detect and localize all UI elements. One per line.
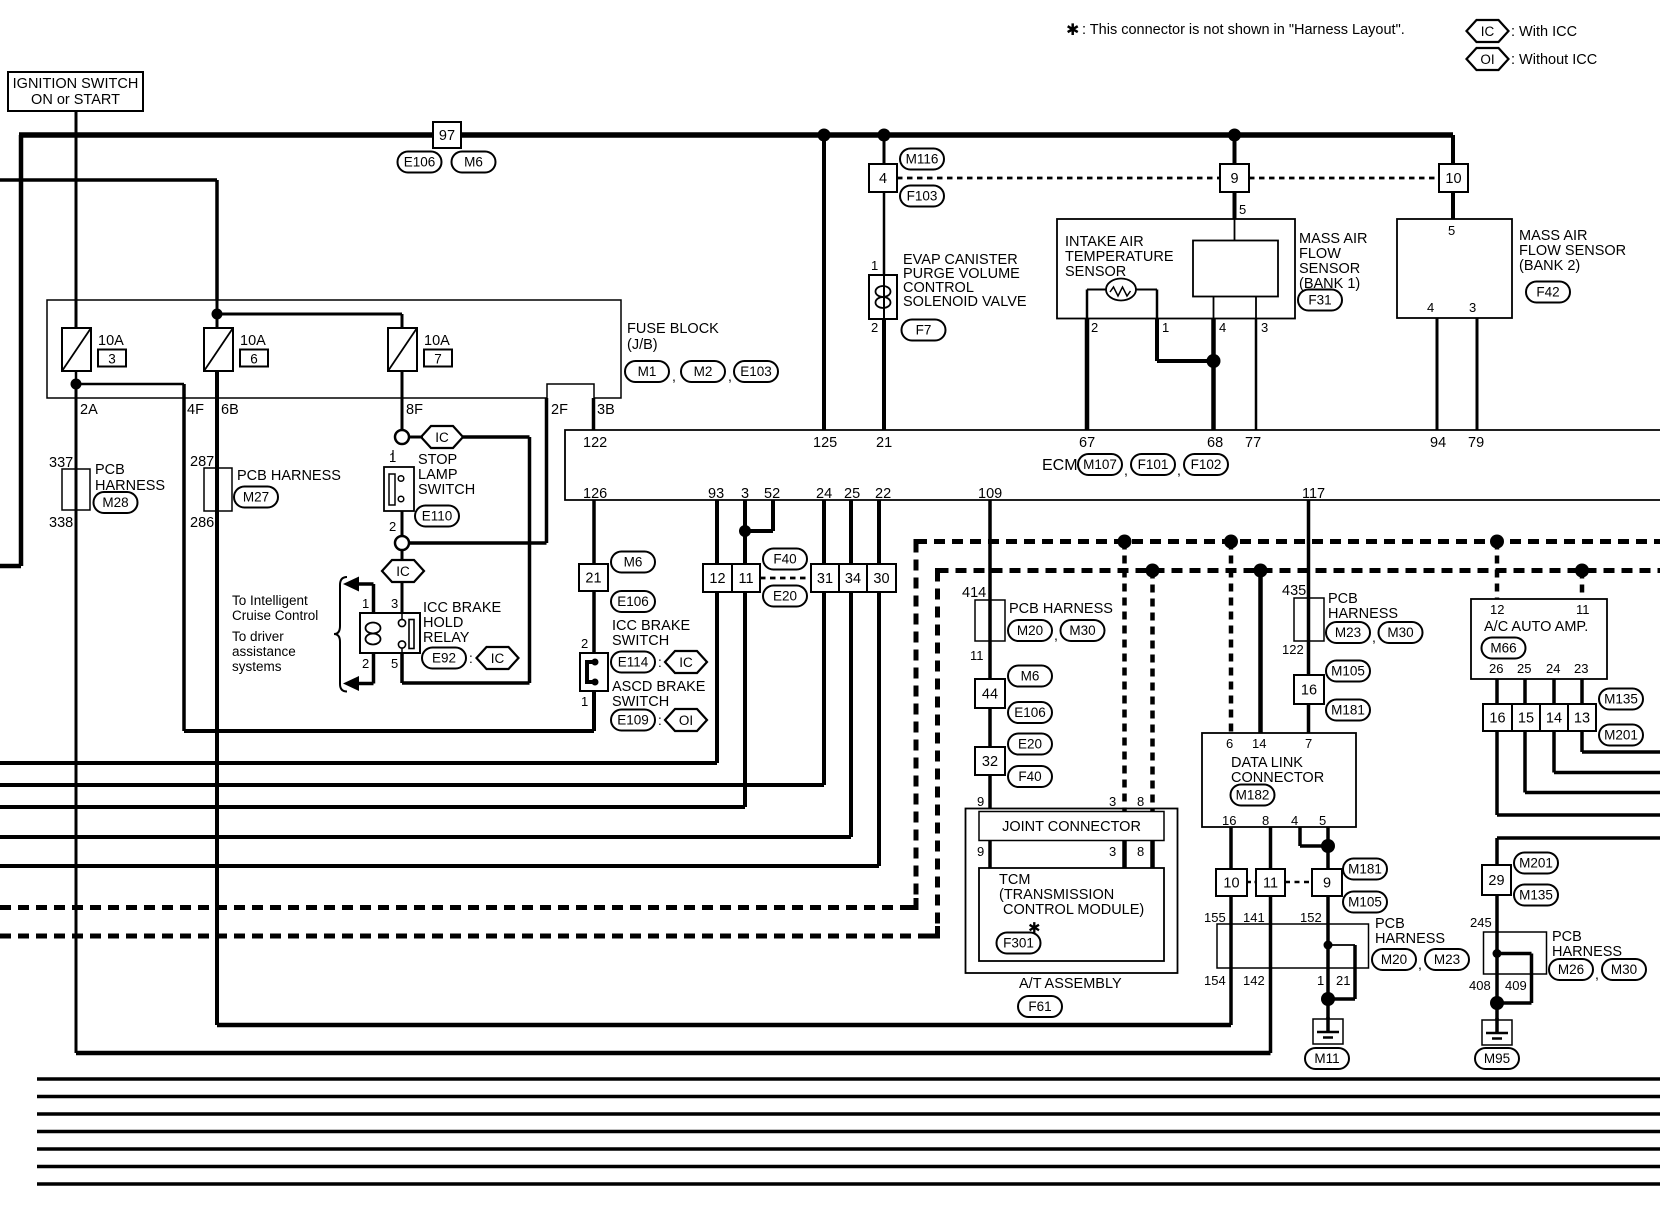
- svg-text:,: ,: [1124, 462, 1128, 478]
- junction bus to ECM 125: [818, 129, 831, 142]
- connector box 4: [869, 164, 897, 192]
- wire ECM 117 down to DLC pin 7: [1307, 500, 1311, 733]
- connector M135 oval: [1599, 689, 1643, 710]
- svg-text:PCB HARNESS: PCB HARNESS: [1009, 601, 1113, 617]
- svg-text:126: 126: [583, 486, 607, 502]
- connector M105 oval: [1343, 892, 1387, 913]
- A/C auto amp box M66: [1471, 599, 1607, 679]
- junction bus to EVAP branch: [878, 129, 891, 142]
- svg-text:29: 29: [1488, 873, 1504, 889]
- connector M135 oval: [1514, 885, 1558, 906]
- connector E109 oval: [611, 710, 655, 731]
- node circle above stop lamp switch: [395, 430, 409, 444]
- wire main power bus from ignition: [19, 132, 1453, 138]
- ground M95: [1482, 1018, 1512, 1045]
- connector box 34: [839, 564, 867, 592]
- svg-text:STOP: STOP: [418, 452, 457, 468]
- connector box 11 lower: [1256, 869, 1285, 896]
- wire pin5 to MAF inner body: [1234, 219, 1236, 241]
- svg-text:2: 2: [362, 656, 369, 671]
- svg-text:30: 30: [873, 571, 889, 587]
- wire 152 into harness: [1326, 896, 1330, 945]
- svg-text:M66: M66: [1490, 641, 1516, 656]
- svg-text:97: 97: [439, 128, 455, 144]
- svg-text:7: 7: [1305, 736, 1312, 751]
- svg-text:CONTROL MODULE): CONTROL MODULE): [1003, 902, 1144, 918]
- wire bus to connector 9: [1233, 135, 1237, 164]
- wire stop lamp pin2 to node: [401, 511, 404, 536]
- TCM box: [979, 868, 1164, 961]
- wire 16 out to right edge: [1495, 731, 1499, 815]
- svg-text:M2: M2: [694, 364, 713, 379]
- connector F42 oval: [1526, 282, 1570, 303]
- svg-text:Cruise Control: Cruise Control: [232, 608, 318, 623]
- svg-text:3: 3: [108, 352, 116, 367]
- svg-text:10: 10: [1223, 876, 1239, 892]
- connector E20 oval: [1008, 734, 1052, 755]
- svg-text:7: 7: [434, 352, 442, 367]
- svg-text:PCB: PCB: [1375, 916, 1405, 932]
- wire fuse block internal feed to fuses 6 and 7: [216, 300, 219, 328]
- svg-text:✱: ✱: [1066, 22, 1079, 39]
- svg-text:34: 34: [845, 571, 861, 587]
- svg-text:To driver: To driver: [232, 629, 284, 644]
- svg-text:HARNESS: HARNESS: [1375, 931, 1445, 947]
- svg-text:23: 23: [1574, 661, 1588, 676]
- svg-text:,: ,: [1054, 627, 1058, 643]
- svg-text:2A: 2A: [80, 402, 98, 418]
- svg-text:ICC BRAKE: ICC BRAKE: [423, 600, 501, 616]
- wire A/C 24 to box14: [1552, 679, 1556, 704]
- wire ignition switch down to fuse 3: [75, 111, 78, 328]
- svg-text:14: 14: [1546, 711, 1562, 727]
- wire connector10 to MAF bank2: [1451, 192, 1455, 219]
- svg-text:117: 117: [1302, 486, 1325, 502]
- svg-text:M201: M201: [1519, 856, 1553, 871]
- bottom spare wire 5: [37, 1147, 1660, 1150]
- svg-text:M20: M20: [1381, 952, 1407, 967]
- svg-text:M182: M182: [1236, 788, 1270, 803]
- svg-text:21: 21: [1336, 973, 1350, 988]
- hexagon IC at stop lamp bypass: [421, 426, 463, 448]
- fuse 7 10A: [388, 328, 452, 371]
- connector box 13 AC: [1568, 704, 1596, 731]
- wire MAF bank2 pin3 to ECM 79: [1476, 318, 1479, 430]
- connector box 12: [703, 564, 732, 592]
- svg-text:,: ,: [1418, 956, 1422, 972]
- connector box 14 AC: [1540, 704, 1568, 731]
- svg-text:M23: M23: [1434, 952, 1460, 967]
- dashed bus 2: [938, 568, 1660, 573]
- svg-text:125: 125: [813, 435, 837, 451]
- connector M27 oval: [234, 487, 278, 508]
- svg-text:(BANK 2): (BANK 2): [1519, 258, 1580, 274]
- svg-text:5: 5: [1239, 202, 1246, 217]
- wire branch y180 to fuse block: [0, 178, 217, 182]
- junction inside M26 harness: [1493, 949, 1502, 958]
- svg-text:3: 3: [741, 486, 749, 502]
- wire 4F feed along y731 to brake switch pin1: [184, 729, 594, 733]
- connector box 31: [811, 564, 839, 592]
- wire connector9 to MAF bank1: [1233, 192, 1237, 219]
- connector box 30: [867, 564, 896, 592]
- connector box 9: [1220, 164, 1249, 192]
- svg-text:IC: IC: [396, 564, 410, 579]
- svg-text:414: 414: [962, 585, 986, 601]
- svg-text:F31: F31: [1308, 293, 1331, 308]
- svg-text:2F: 2F: [551, 402, 568, 418]
- wire A/C 25 to box15: [1523, 679, 1527, 704]
- svg-text:5: 5: [1319, 813, 1326, 828]
- svg-text:141: 141: [1243, 910, 1265, 925]
- svg-text:408: 408: [1469, 978, 1491, 993]
- connector M105 oval: [1326, 661, 1370, 682]
- svg-text:14: 14: [1252, 736, 1266, 751]
- svg-text:,: ,: [672, 368, 676, 384]
- svg-text:assistance: assistance: [232, 644, 296, 659]
- svg-text:HOLD: HOLD: [423, 615, 463, 631]
- junction bus to MAF bank1 branch: [1228, 129, 1241, 142]
- wire 245-408 through harness: [1495, 932, 1499, 1020]
- fuse block notch 2F/3B: [547, 384, 594, 399]
- junction inside harness: [1324, 941, 1333, 950]
- svg-text:44: 44: [982, 687, 998, 703]
- svg-text:M30: M30: [1069, 623, 1095, 638]
- connector F40 oval: [1008, 766, 1052, 787]
- svg-text:3B: 3B: [597, 402, 615, 418]
- svg-text:8F: 8F: [406, 402, 423, 418]
- joint connector strip: [979, 812, 1164, 841]
- svg-text:16: 16: [1301, 683, 1317, 699]
- svg-text:HARNESS: HARNESS: [1552, 944, 1622, 960]
- bottom spare wire 3: [37, 1112, 1660, 1115]
- svg-text:E114: E114: [618, 655, 649, 670]
- svg-text:F103: F103: [907, 189, 938, 204]
- dashed wire bus1 to DLC pin 6: [1229, 542, 1234, 734]
- dashed link 11 to 31: [760, 577, 811, 580]
- wire joint connector pin 3 to TCM: [1122, 841, 1127, 868]
- svg-text:OI: OI: [679, 713, 693, 728]
- svg-text:SWITCH: SWITCH: [418, 482, 475, 498]
- svg-text:3: 3: [391, 596, 398, 611]
- svg-text:109: 109: [978, 486, 1002, 502]
- svg-text:67: 67: [1079, 435, 1095, 451]
- svg-text:M23: M23: [1335, 625, 1361, 640]
- wire 8F down to stop lamp switch: [401, 371, 404, 430]
- connector E103 oval: [734, 361, 778, 382]
- svg-text:F101: F101: [1138, 457, 1169, 472]
- connector M95 oval: [1475, 1048, 1519, 1069]
- junction 3/52: [739, 525, 751, 537]
- wire 2A feed along y1053 to pin 142: [76, 1051, 1271, 1056]
- svg-text:TCM: TCM: [999, 872, 1030, 888]
- svg-text:M6: M6: [1021, 669, 1040, 684]
- wire bus left drop to left edge: [19, 135, 24, 566]
- svg-text:M26: M26: [1558, 962, 1584, 977]
- svg-text::: :: [658, 713, 662, 728]
- svg-text:F42: F42: [1536, 285, 1559, 300]
- wire box29 to PCB harness 245: [1495, 895, 1499, 932]
- svg-text:E103: E103: [740, 364, 772, 379]
- connector E92 oval: [422, 648, 466, 669]
- svg-text:M107: M107: [1083, 457, 1117, 472]
- svg-text:M30: M30: [1611, 962, 1637, 977]
- wire EVAP to ECM 21: [882, 319, 886, 430]
- wire 15 out to right edge: [1523, 731, 1527, 793]
- svg-text:E20: E20: [1018, 737, 1042, 752]
- arrow to driver assistance systems: [372, 653, 376, 684]
- fuse 3 10A: [62, 328, 126, 371]
- wire 2F riser: [545, 398, 549, 543]
- svg-text:SWITCH: SWITCH: [612, 694, 669, 710]
- svg-text:11: 11: [1263, 876, 1278, 892]
- svg-text:E106: E106: [404, 155, 436, 170]
- svg-text:4F: 4F: [187, 402, 204, 418]
- svg-text:SENSOR: SENSOR: [1065, 264, 1126, 280]
- svg-text:4: 4: [879, 171, 887, 187]
- wire branch to pin 409: [1497, 952, 1532, 956]
- svg-text:A/T ASSEMBLY: A/T ASSEMBLY: [1019, 976, 1122, 992]
- svg-text:IC: IC: [491, 651, 505, 666]
- MAF bank1 / IAT sensor box: [1057, 219, 1295, 319]
- svg-text:E106: E106: [1014, 705, 1046, 720]
- connector box 9 lower: [1312, 869, 1342, 896]
- svg-text:1: 1: [1162, 320, 1169, 335]
- svg-text:E110: E110: [422, 509, 453, 524]
- svg-text:F40: F40: [1018, 769, 1041, 784]
- wire ECM 126 down to box 21: [592, 500, 596, 564]
- svg-text:ASCD BRAKE: ASCD BRAKE: [612, 679, 706, 695]
- svg-text:PCB: PCB: [95, 462, 125, 478]
- wire MAF body pin4: [1213, 297, 1215, 319]
- wire connector4 down to EVAP valve: [883, 192, 886, 275]
- svg-text:ICC BRAKE: ICC BRAKE: [612, 618, 690, 634]
- svg-text:31: 31: [817, 571, 833, 587]
- wire MAF bank2 pin4 to ECM 94: [1436, 318, 1439, 430]
- dashed link 4 to 9: [897, 177, 1220, 180]
- connector PCB HARNESS M27 box: [204, 468, 232, 511]
- connector M201 oval: [1599, 725, 1643, 746]
- svg-text:338: 338: [49, 515, 73, 531]
- dashed link 9 to 10: [1249, 177, 1439, 180]
- svg-text:16: 16: [1489, 711, 1505, 727]
- junction fuse3 output: [71, 379, 82, 390]
- svg-text:4: 4: [1219, 320, 1226, 335]
- wire ECM 109 down to joint connector: [988, 500, 992, 809]
- svg-text:9: 9: [977, 844, 984, 859]
- svg-text:94: 94: [1430, 435, 1446, 451]
- connector box 16: [1294, 675, 1324, 704]
- svg-text:IGNITION SWITCH: IGNITION SWITCH: [13, 76, 139, 92]
- connector box 11: [732, 564, 760, 592]
- MAF bank2 box F42: [1397, 219, 1512, 318]
- svg-text:M201: M201: [1604, 728, 1638, 743]
- wire ECM 52 jog to 3: [771, 500, 775, 531]
- svg-text:10A: 10A: [240, 333, 266, 349]
- connector box 44: [975, 679, 1005, 708]
- connector F7 oval: [902, 320, 946, 341]
- svg-text:systems: systems: [232, 659, 282, 674]
- svg-text:LAMP: LAMP: [418, 467, 458, 483]
- svg-text:FUSE BLOCK: FUSE BLOCK: [627, 321, 719, 337]
- svg-text:2: 2: [871, 320, 878, 335]
- connector M23 oval: [1326, 622, 1370, 643]
- connector F103 oval: [900, 186, 944, 207]
- svg-text:21: 21: [585, 571, 601, 587]
- svg-text:435: 435: [1282, 583, 1306, 599]
- wire bus to connector 4: [883, 135, 886, 164]
- dashed bus 2 left drop: [935, 571, 940, 937]
- connector F40 oval: [763, 549, 807, 570]
- connector M30 oval: [1061, 620, 1105, 641]
- svg-text:8: 8: [1262, 813, 1269, 828]
- svg-text:2: 2: [389, 519, 396, 534]
- svg-text:4: 4: [1291, 813, 1298, 828]
- svg-text:M135: M135: [1519, 888, 1553, 903]
- connector M20 oval: [1372, 949, 1416, 970]
- fuse block (J/B) outline: [47, 300, 621, 398]
- connector M107 oval: [1078, 454, 1122, 475]
- svg-text:RELAY: RELAY: [423, 630, 470, 646]
- connector M28 oval: [94, 492, 138, 513]
- svg-text:IC: IC: [679, 655, 693, 670]
- svg-text:122: 122: [1282, 642, 1304, 657]
- connector box 10: [1439, 164, 1468, 192]
- connector box 10 lower: [1216, 869, 1247, 896]
- svg-text:1: 1: [581, 694, 588, 709]
- wire 6B down through M27 to y1025: [215, 371, 219, 1025]
- svg-text:M6: M6: [624, 555, 643, 570]
- svg-text:M105: M105: [1348, 895, 1382, 910]
- bottom spare wire 2: [37, 1095, 1660, 1098]
- connector M181 oval: [1343, 859, 1387, 880]
- svg-text:2: 2: [581, 636, 588, 651]
- connector M116 oval: [900, 149, 944, 170]
- dashed bus 1: [916, 539, 1660, 544]
- svg-text:6: 6: [250, 352, 258, 367]
- svg-text:E92: E92: [432, 651, 456, 666]
- dashed wire bus1 to joint connector pin 3: [1122, 542, 1127, 812]
- svg-text:26: 26: [1489, 661, 1503, 676]
- svg-text:3: 3: [1109, 844, 1116, 859]
- hexagon IC above relay: [401, 550, 404, 560]
- connector M23 oval: [1425, 949, 1469, 970]
- connector M30 oval: [1379, 622, 1423, 643]
- junction IAT pin1 with MAF pin4 wire: [1207, 354, 1221, 368]
- connector PCB HARNESS 435/122 box: [1294, 598, 1324, 641]
- connector box 21: [579, 564, 608, 591]
- MAF bank1 inner body: [1193, 241, 1278, 297]
- svg-text::: :: [469, 651, 473, 666]
- bottom spare wire 4: [37, 1130, 1660, 1133]
- svg-text:F102: F102: [1191, 457, 1222, 472]
- bottom spare wire 6: [37, 1165, 1660, 1168]
- fuse 6 10A: [204, 328, 268, 371]
- connector M11 oval: [1305, 1048, 1349, 1069]
- svg-text:SWITCH: SWITCH: [612, 633, 669, 649]
- connector E106 oval: [398, 152, 442, 173]
- svg-text:INTAKE AIR: INTAKE AIR: [1065, 234, 1144, 250]
- dashed bus 2 corner joints: [935, 568, 945, 573]
- svg-text:10A: 10A: [98, 333, 124, 349]
- dashed wire bus1 to A/C pin 12: [1495, 542, 1500, 600]
- bottom spare wire 1: [37, 1077, 1660, 1080]
- svg-text:11: 11: [738, 571, 753, 587]
- connector F31 oval: [1298, 290, 1342, 311]
- wire branch to 4F column: [76, 383, 184, 386]
- wire DLC 5 to box 9: [1326, 827, 1330, 869]
- svg-text:ON or START: ON or START: [31, 92, 120, 108]
- wire DLC 16 to box 10: [1229, 827, 1233, 869]
- svg-text:12: 12: [709, 571, 725, 587]
- connector F61 oval: [1018, 996, 1062, 1017]
- PCB harness box M26/M30: [1484, 932, 1547, 974]
- svg-text:M11: M11: [1314, 1051, 1339, 1066]
- wire IAT pin2 to ECM 67: [1085, 319, 1090, 431]
- svg-text:FLOW SENSOR: FLOW SENSOR: [1519, 243, 1626, 259]
- svg-text:9: 9: [1323, 876, 1331, 892]
- wire 155-154 through harness: [1229, 896, 1233, 1025]
- svg-text:M181: M181: [1331, 703, 1365, 718]
- svg-text:409: 409: [1505, 978, 1527, 993]
- svg-text:HARNESS: HARNESS: [1328, 606, 1398, 622]
- svg-text:5: 5: [391, 656, 398, 671]
- svg-text:52: 52: [764, 486, 780, 502]
- wire 6B feed along y1025 to pin 154: [217, 1023, 1231, 1028]
- svg-text:(J/B): (J/B): [627, 337, 658, 353]
- data link connector box M182: [1202, 733, 1356, 827]
- svg-text:11: 11: [970, 648, 984, 663]
- connector box 32: [975, 747, 1005, 775]
- svg-text:A/C AUTO AMP.: A/C AUTO AMP.: [1484, 619, 1588, 635]
- wire node to hexagon: [408, 436, 423, 439]
- svg-text:F40: F40: [773, 552, 796, 567]
- wire bus2 to DLC pin 14: [1258, 571, 1263, 734]
- dashed link 10-11: [1247, 881, 1256, 884]
- connector E20 oval: [763, 586, 807, 607]
- junction at fuse 6 feed: [212, 309, 223, 320]
- junction dashed bus1 at pin3 drop: [1118, 535, 1132, 549]
- wire ECM 3 down: [743, 500, 747, 531]
- svg-text:JOINT CONNECTOR: JOINT CONNECTOR: [1002, 819, 1141, 835]
- svg-text:F7: F7: [916, 323, 932, 338]
- svg-text::: :: [658, 655, 662, 670]
- wire bus to ECM 125: [822, 135, 826, 430]
- wire A/C 26 to box16: [1495, 679, 1499, 704]
- brace for external systems: [334, 577, 347, 692]
- svg-text:M181: M181: [1348, 862, 1382, 877]
- svg-text:M116: M116: [906, 152, 939, 167]
- ICC/ASCD brake switch E114/E109: [580, 653, 608, 691]
- wire MAF body pin3: [1255, 297, 1257, 319]
- dashed bus 1 corner joints: [914, 539, 925, 544]
- svg-text:3: 3: [1261, 320, 1268, 335]
- svg-text:,: ,: [1372, 629, 1376, 645]
- ground M11: [1313, 1017, 1343, 1044]
- legend hexagon IC = With ICC: [1467, 20, 1509, 42]
- junction dashed bus2 at pin8 drop: [1146, 564, 1160, 578]
- svg-text:77: 77: [1245, 435, 1261, 451]
- svg-text:: With ICC: : With ICC: [1511, 24, 1577, 40]
- svg-text:IC: IC: [435, 430, 449, 445]
- hexagon IC for E114: [665, 651, 707, 673]
- svg-text:DATA LINK: DATA LINK: [1231, 755, 1303, 771]
- connector box 29: [1482, 865, 1511, 895]
- wire ECM 24 through box31 to left edge: [822, 500, 826, 785]
- svg-text:22: 22: [875, 486, 891, 502]
- connector M66 oval: [1482, 638, 1526, 659]
- svg-text:24: 24: [1546, 661, 1560, 676]
